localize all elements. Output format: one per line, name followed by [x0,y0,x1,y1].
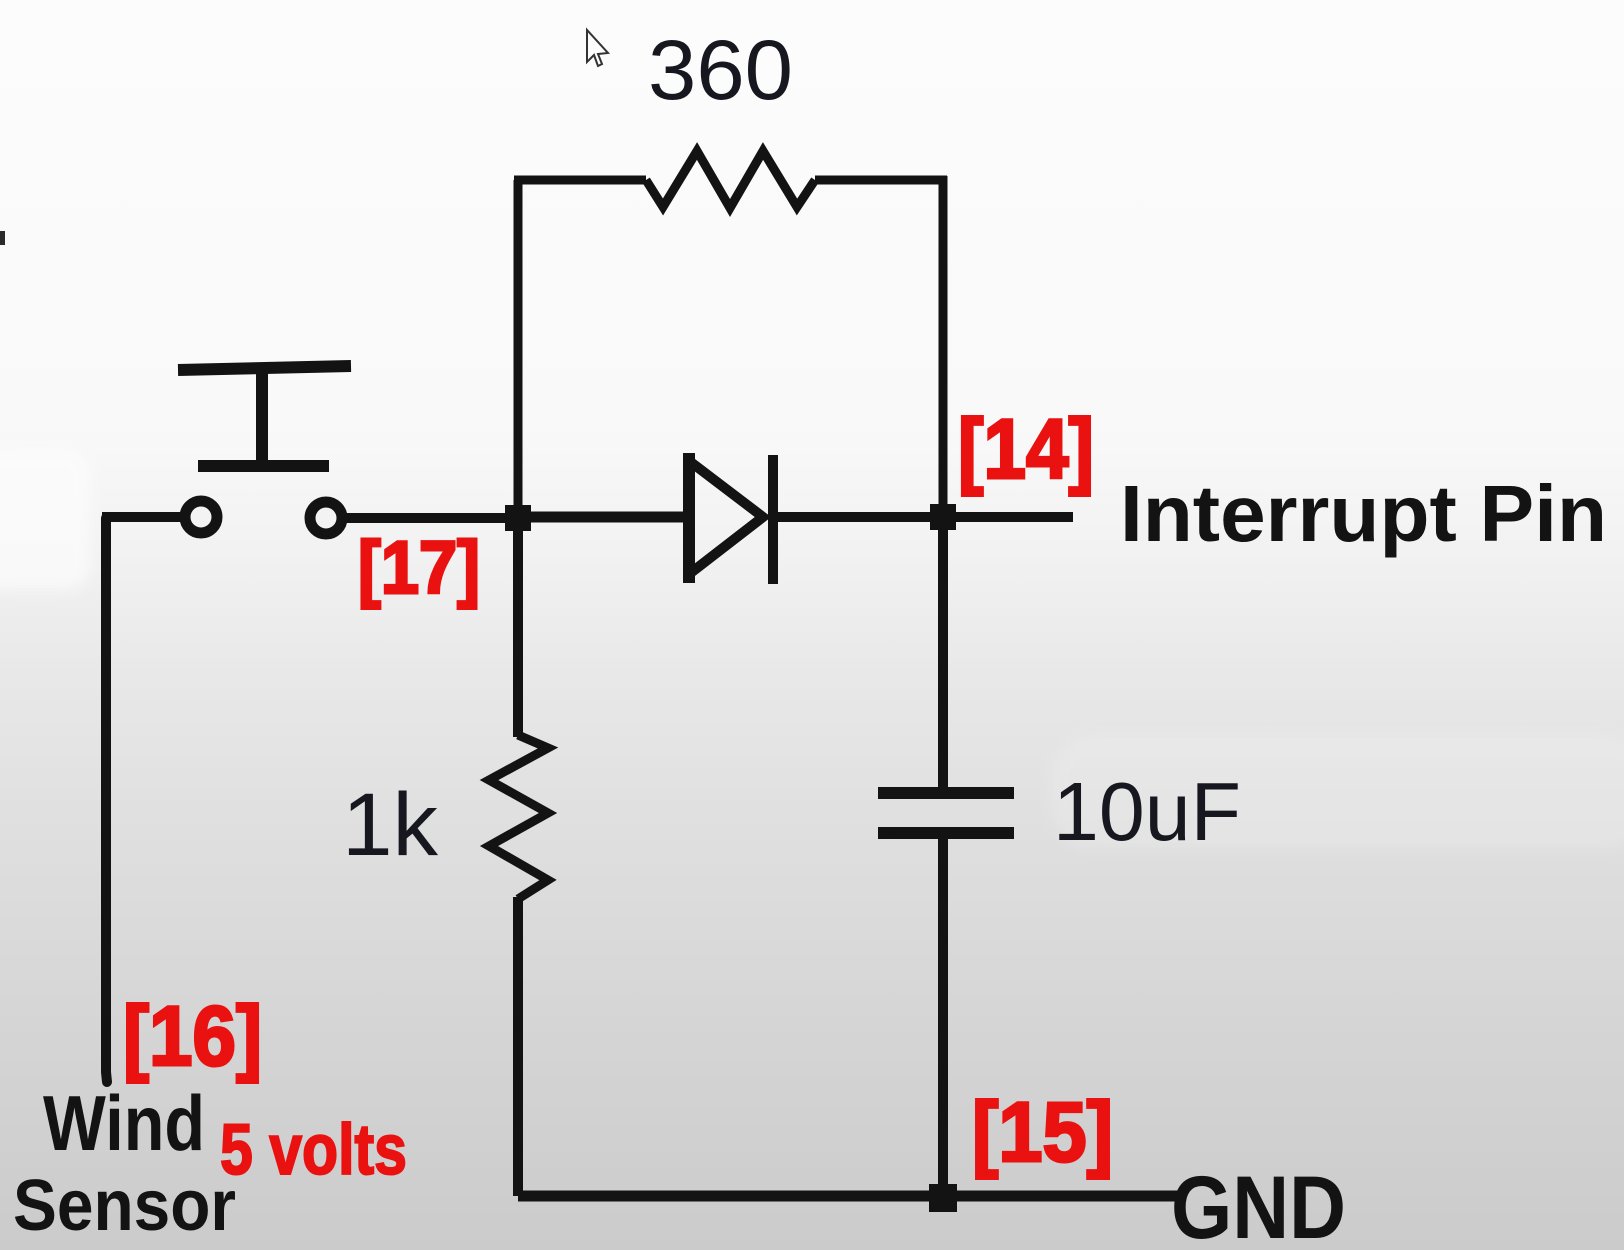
wire node14 down to capacitor [938,517,948,789]
wire top horizontal right segment [815,176,947,185]
pushbutton SW1 bottom bar [198,460,329,472]
mouse cursor [587,30,608,66]
svg-text:Wind: Wind [43,1079,205,1167]
wire node17 down to R2 [513,518,523,737]
svg-text:5 volts: 5 volts [220,1111,407,1190]
pushbutton SW1 left contact circle [185,501,217,533]
wire switch to node 17 [344,513,518,523]
svg-text:[17]: [17] [358,526,480,609]
pushbutton SW1 right contact circle [310,502,342,534]
node 14 junction [930,504,956,530]
wire node14 to interrupt pin [943,512,1073,522]
wire capacitor to node15 [938,837,948,1198]
svg-text:GND: GND [1171,1157,1346,1250]
resistor R2 1k zigzag [489,735,548,899]
wire top horizontal left segment [514,176,646,185]
wire node17 to diode [518,512,691,523]
capacitor C1 bottom plate [878,827,1014,839]
svg-text:Interrupt Pin: Interrupt Pin [1120,469,1607,558]
wire R2 to bottom [513,897,523,1196]
svg-text:[15]: [15] [972,1085,1113,1179]
wire diode to node14 [772,512,943,522]
wire bottom horizontal [518,1191,1184,1202]
diode D1 cathode bar [768,455,778,584]
svg-text:1k: 1k [342,774,439,874]
resistor R1 360 zigzag [646,151,815,208]
diode D1 triangle [688,453,763,583]
wire left lead to switch [102,512,182,522]
wire right vertical upper (node 14 up) [939,176,948,513]
wire top loop left vertical (node 17 branch up) [514,180,523,518]
pushbutton SW1 stem [256,368,268,467]
svg-text:[14]: [14] [958,402,1094,496]
svg-text:Sensor: Sensor [13,1166,236,1246]
light band middle right [1050,735,1624,850]
node 17 junction [505,505,531,531]
dark tick left edge [0,231,5,245]
wire left vertical wind sensor [106,518,107,1082]
svg-text:360: 360 [648,23,793,117]
light patch left edge [0,450,90,590]
pushbutton SW1 top bar [178,366,351,370]
svg-text:10uF: 10uF [1053,765,1241,858]
capacitor C1 top plate [878,787,1014,799]
node 15 junction [929,1184,957,1212]
svg-text:[16]: [16] [123,989,262,1083]
